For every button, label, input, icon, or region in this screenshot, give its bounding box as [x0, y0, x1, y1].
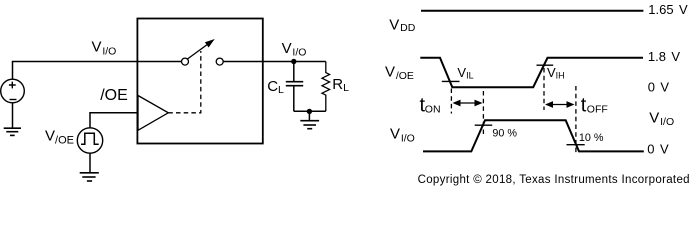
ground G1 — [4, 128, 21, 135]
DUT box — [137, 19, 262, 144]
svg-text:OFF: OFF — [587, 103, 608, 115]
tick 10% — [567, 144, 585, 146]
pulse source V2 — [77, 128, 102, 153]
waveform V/OE trace — [420, 58, 643, 87]
svg-text:Copyright © 2018, Texas Instru: Copyright © 2018, Texas Instruments Inco… — [418, 174, 690, 186]
node bottom junction dot — [307, 109, 312, 114]
wire to ground G3 — [308, 111, 310, 120]
svg-text:90 %: 90 % — [492, 128, 517, 140]
svg-text:1.65 V: 1.65 V — [648, 2, 688, 17]
wire V1 bottom to ground — [12, 103, 14, 128]
switch S1 right contact — [216, 58, 223, 65]
resistor RL — [322, 62, 330, 112]
waveform VDD level line — [421, 10, 643, 12]
tick 90% — [475, 124, 493, 126]
switch S1 left contact — [182, 58, 189, 65]
pulse symbol — [81, 133, 99, 144]
wire V1 top to box — [13, 62, 182, 80]
wire bottom rail — [294, 110, 326, 112]
tON arrow — [453, 100, 483, 107]
svg-text:RL: RL — [332, 76, 349, 94]
svg-text:V/OE: V/OE — [385, 64, 414, 82]
wire switch to output node — [223, 61, 326, 63]
wire pulse source to buffer — [90, 113, 138, 128]
svg-text:ON: ON — [425, 103, 441, 115]
svg-text:/OE: /OE — [100, 87, 128, 104]
capacitor CL bottom wire — [293, 86, 295, 112]
tick VIL — [442, 80, 460, 82]
dashed line tON left — [450, 89, 452, 114]
dashed control line buffer to switch — [168, 51, 201, 113]
svg-text:CL: CL — [267, 78, 284, 96]
ground G2 — [80, 173, 99, 181]
node output junction dot — [291, 59, 296, 64]
ground G3 — [300, 121, 319, 129]
tick VIH — [537, 64, 554, 66]
waveform VI/O trace — [423, 120, 644, 151]
wire V2 bottom to ground — [89, 153, 91, 173]
svg-text:VI/O: VI/O — [390, 126, 415, 145]
capacitor CL top wire — [293, 62, 295, 82]
capacitor CL plates — [286, 82, 303, 86]
dashed line tON right — [482, 91, 484, 134]
voltage source V1 — [1, 79, 25, 103]
svg-text:VIL: VIL — [457, 65, 473, 81]
svg-text:VI/O: VI/O — [649, 109, 674, 128]
svg-text:0 V: 0 V — [648, 79, 670, 94]
dashed line tOFF right — [575, 86, 577, 153]
svg-text:1.8 V: 1.8 V — [648, 49, 680, 64]
buffer U1 (OE driver) — [138, 96, 168, 131]
svg-text:VI/O: VI/O — [282, 40, 307, 59]
dashed line tOFF left — [543, 68, 545, 110]
svg-text:VIH: VIH — [547, 65, 565, 81]
svg-text:0 V: 0 V — [647, 142, 669, 157]
tOFF arrow — [545, 101, 575, 108]
switch S1 arrowhead — [205, 39, 215, 48]
svg-text:VI/O: VI/O — [92, 38, 117, 57]
switch S1 lever — [188, 44, 208, 59]
svg-text:10 %: 10 % — [579, 132, 604, 144]
svg-text:V/OE: V/OE — [45, 128, 74, 147]
svg-text:VDD: VDD — [389, 16, 415, 34]
